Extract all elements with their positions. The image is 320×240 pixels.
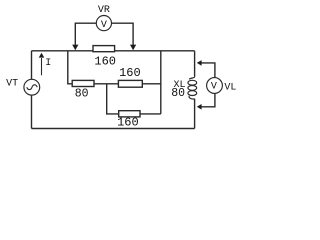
source VT circle: [24, 79, 40, 95]
wire right vertical (XL branch): [194, 51, 196, 129]
arrow VL top lead left: [197, 60, 202, 66]
svg-text:V: V: [101, 20, 107, 31]
inductor XL coil: [188, 76, 197, 99]
wire junction vertical down to lower branch: [107, 84, 119, 114]
wire VR left lead: [75, 23, 96, 45]
resistor R top 160: [93, 46, 115, 52]
svg-text:VL: VL: [224, 83, 236, 94]
svg-text:160: 160: [94, 55, 116, 69]
svg-text:80: 80: [171, 87, 185, 100]
wire vertical at node after source to 80 resistor: [68, 51, 72, 84]
wire VL top lead: [201, 63, 215, 78]
wire rejoin vertical to top wire: [160, 51, 162, 114]
arrow VR left lead down: [72, 45, 78, 51]
voltmeter VR circle: [96, 16, 111, 31]
svg-text:V: V: [211, 82, 217, 93]
svg-text:80: 80: [75, 87, 89, 100]
wire middle branch between 80 and 160: [94, 83, 118, 85]
source VT sine wave: [27, 85, 37, 90]
svg-text:160: 160: [119, 66, 141, 80]
svg-text:160: 160: [117, 116, 139, 130]
wire VL bottom lead: [201, 93, 215, 106]
wire bottom: [32, 128, 195, 130]
wire lower branch right of 160: [140, 113, 161, 115]
wire top: [32, 50, 195, 52]
arrow current I: [41, 58, 43, 75]
arrow VR right lead down: [130, 45, 136, 51]
svg-text:I: I: [45, 58, 51, 69]
svg-text:VT: VT: [6, 79, 18, 90]
voltmeter VL circle: [207, 78, 223, 94]
wire middle branch right of 160 to rejoin vertical: [143, 83, 161, 85]
wire left vertical (VT branch): [31, 51, 33, 129]
resistor 160 middle branch: [118, 80, 142, 87]
resistor 80: [72, 80, 94, 86]
resistor 160 lower branch: [119, 111, 140, 117]
svg-text:VR: VR: [98, 5, 110, 16]
arrow VL bottom lead left: [197, 104, 202, 110]
wire VR right lead: [111, 23, 133, 45]
